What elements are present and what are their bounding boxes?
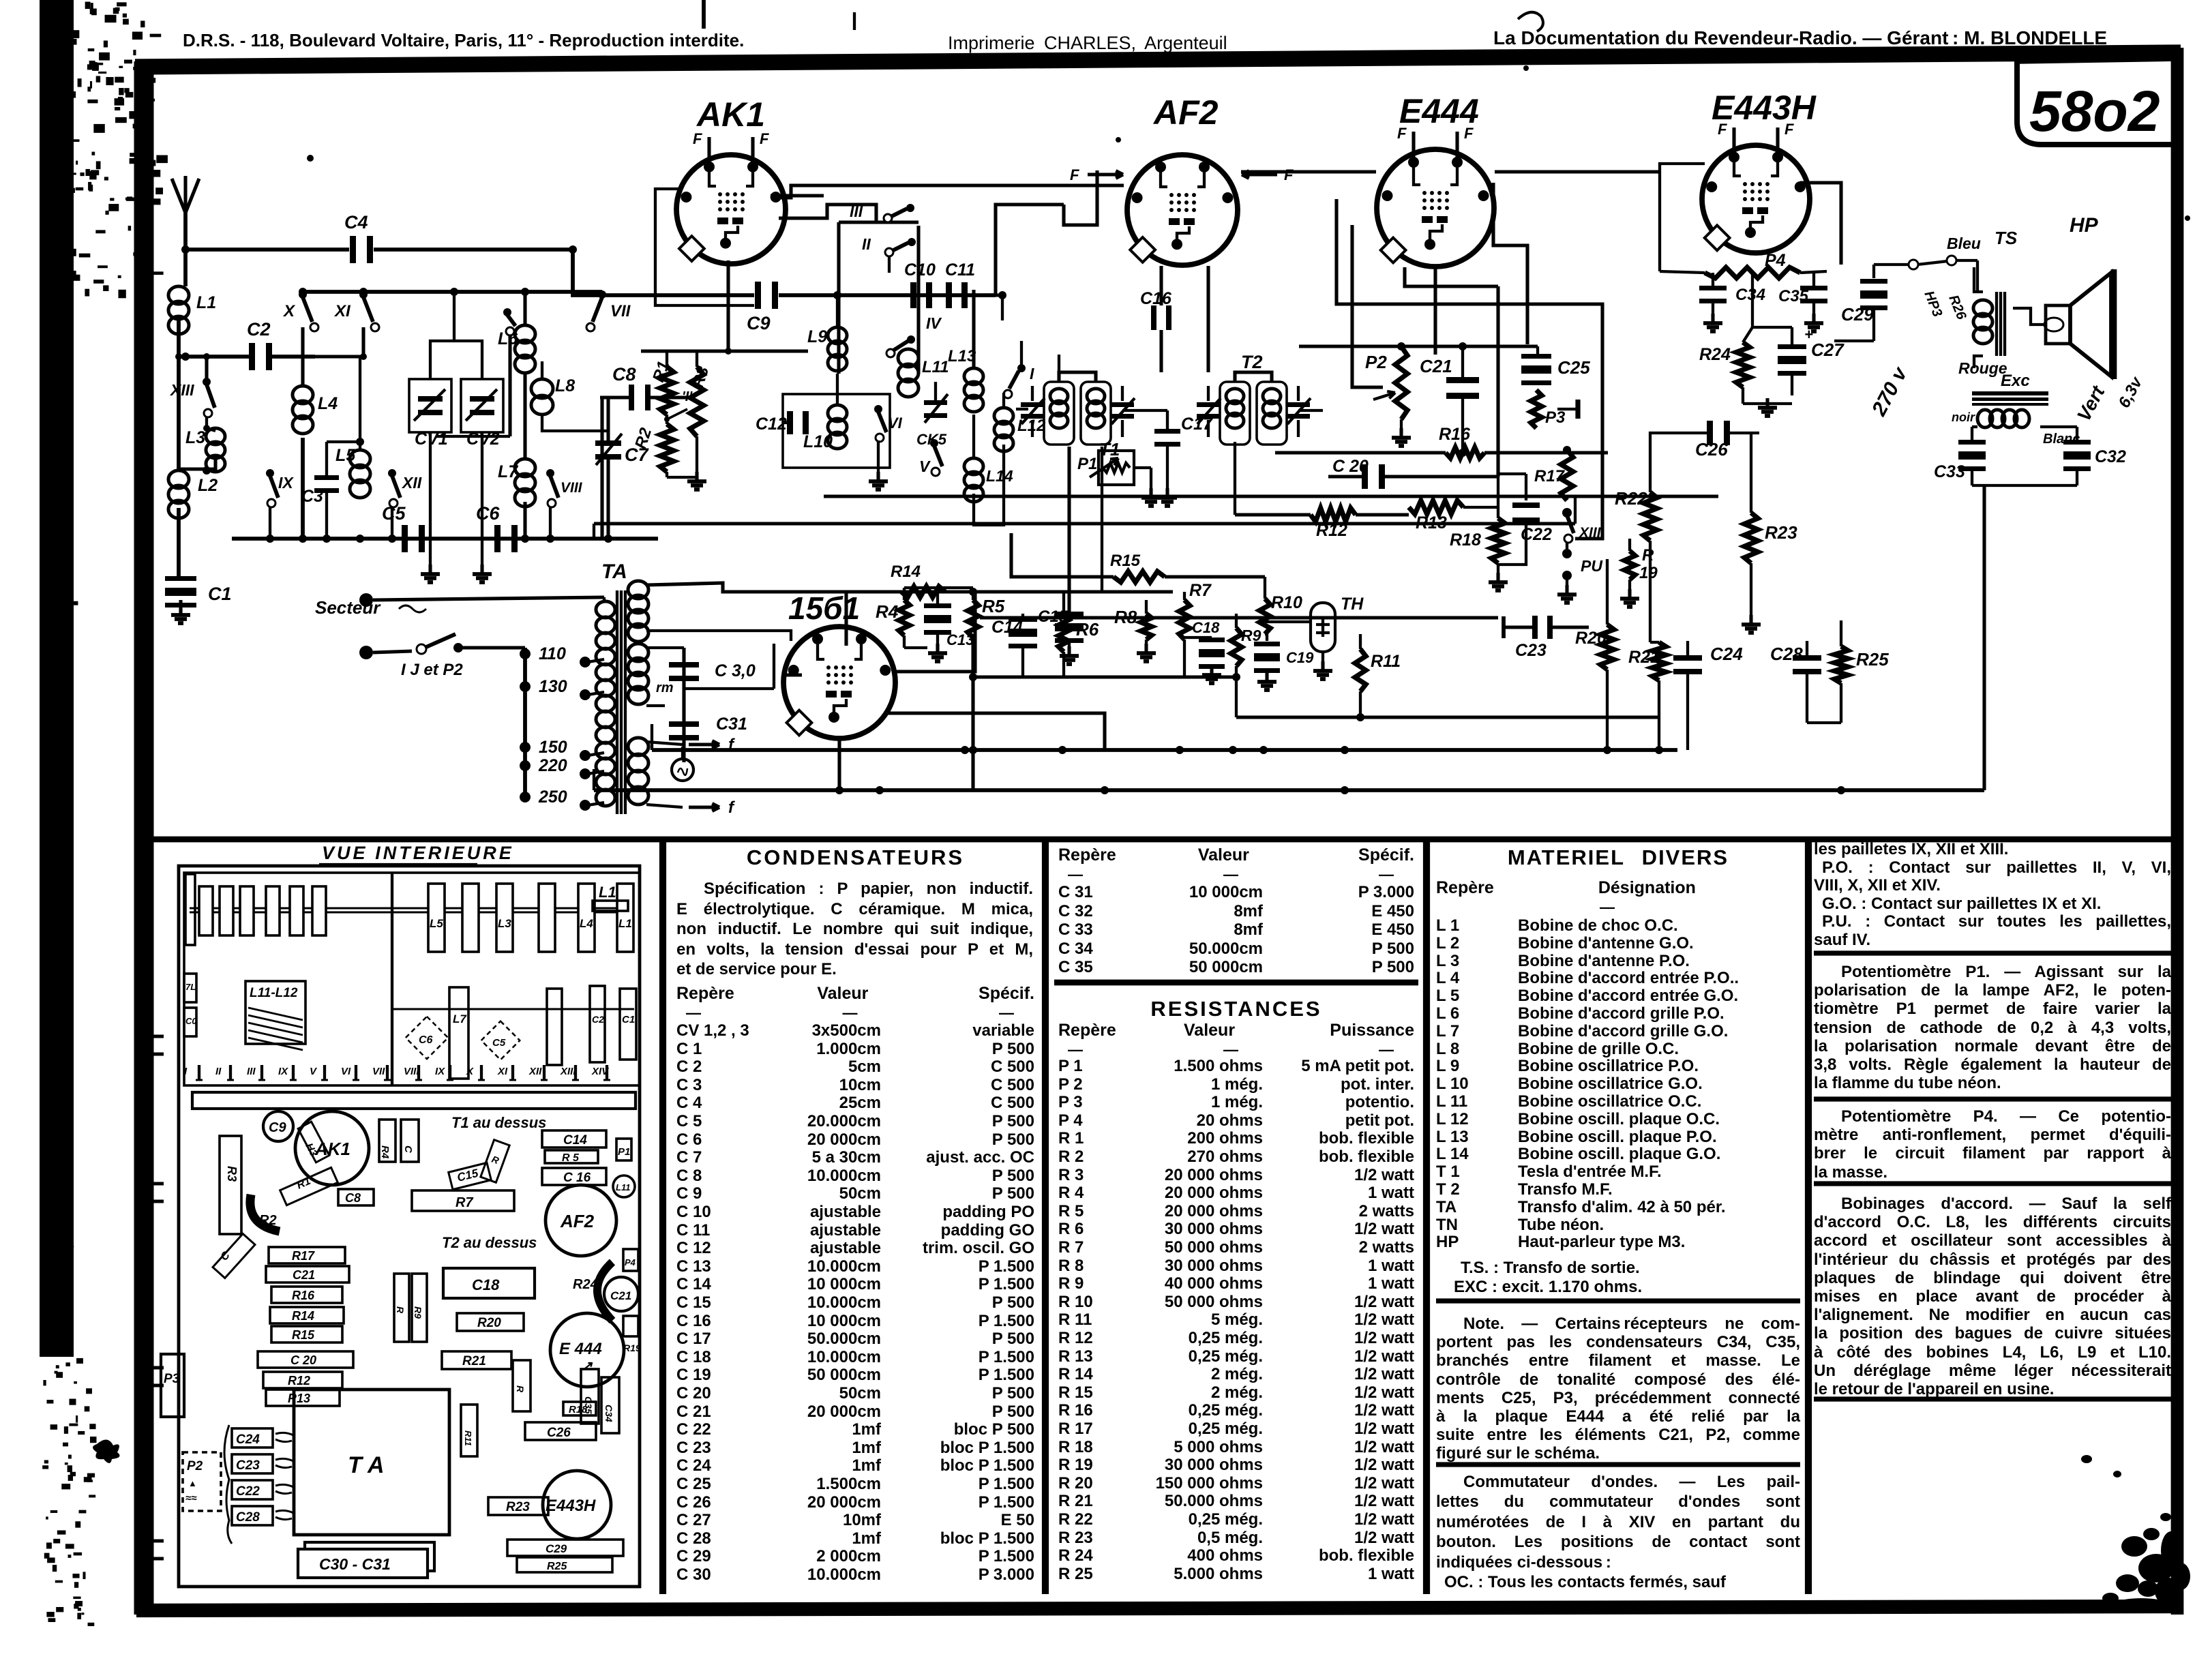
- layout R6: [481, 1140, 509, 1183]
- wire HT bottom: [646, 631, 791, 641]
- svg-text:noir: noir: [1952, 410, 1975, 424]
- svg-text:150: 150: [539, 738, 567, 757]
- wire: [177, 319, 181, 357]
- svg-text:VI: VI: [341, 1066, 351, 1077]
- switch tick: [417, 1065, 420, 1080]
- svg-text:L1: L1: [599, 884, 616, 901]
- capacitor C22: [1512, 502, 1540, 508]
- ground: [1165, 488, 1169, 498]
- svg-text:TH: TH: [1341, 595, 1364, 614]
- coil L8: [531, 379, 553, 398]
- wire: [179, 455, 215, 469]
- wire E444-E443H: [1495, 170, 1660, 173]
- svg-text:C31: C31: [716, 715, 747, 734]
- svg-text:C22: C22: [236, 1484, 260, 1499]
- capacitor C24: [1673, 655, 1702, 661]
- svg-text:P1: P1: [618, 1146, 630, 1158]
- layout P4: [623, 1249, 638, 1271]
- svg-text:110: 110: [539, 644, 566, 663]
- svg-text:C12: C12: [756, 415, 787, 434]
- resistor R24: [1736, 342, 1750, 387]
- layout cap bank: [224, 1425, 232, 1544]
- resistor R12: [1311, 508, 1356, 522]
- wire E443H top: [1800, 183, 1841, 265]
- svg-text:TA: TA: [601, 560, 627, 583]
- layout R11: [461, 1405, 477, 1456]
- resistor R19: [1624, 551, 1635, 580]
- page frame: [135, 52, 2181, 67]
- left small blocks: [185, 874, 195, 945]
- mains secteur: [359, 593, 373, 607]
- wire: [1984, 485, 1985, 790]
- switch III: [884, 214, 892, 222]
- resistor R25: [1834, 646, 1848, 683]
- svg-text:XII: XII: [528, 1066, 542, 1077]
- svg-text:R9: R9: [413, 1306, 423, 1319]
- wire AF2-E444: [1241, 170, 1376, 173]
- svg-text:X: X: [282, 302, 296, 320]
- pilot lamp: [672, 759, 693, 781]
- variable capacitor CV2: [461, 379, 503, 432]
- rule under Note: [1436, 1462, 1800, 1467]
- svg-text:III: III: [850, 202, 863, 220]
- svg-text:R11: R11: [463, 1430, 473, 1446]
- coil L5: [350, 450, 370, 468]
- svg-text:≈≈: ≈≈: [185, 1492, 197, 1504]
- svg-text:C2: C2: [592, 1014, 604, 1025]
- svg-text:C8: C8: [612, 364, 636, 385]
- layout R13: [266, 1390, 340, 1406]
- switch X2: [503, 308, 511, 316]
- svg-text:XIII: XIII: [169, 381, 194, 399]
- capacitor C8: [629, 385, 634, 410]
- ground: [1400, 419, 1403, 434]
- trimmer block: [312, 886, 326, 935]
- resistor R5: [968, 600, 979, 637]
- wire HT top: [646, 583, 1173, 592]
- svg-text:C29: C29: [1841, 304, 1874, 325]
- wire: [646, 704, 665, 707]
- svg-text:R10: R10: [1271, 593, 1302, 612]
- svg-text:P2: P2: [1365, 352, 1387, 372]
- svg-text:III: III: [247, 1066, 256, 1077]
- svg-text:270 v: 270 v: [1868, 362, 1913, 420]
- svg-text:7L: 7L: [185, 982, 196, 992]
- capacitor C4: [350, 236, 356, 263]
- coil L14: [964, 458, 983, 475]
- dial assembly box: [184, 873, 640, 1085]
- layout R3: [220, 1136, 241, 1234]
- svg-text:IX: IX: [435, 1066, 445, 1077]
- capacitor C3: [314, 475, 339, 480]
- svg-text:L1: L1: [618, 917, 632, 930]
- wire: [205, 357, 208, 382]
- chassis side tab: [151, 1541, 164, 1559]
- svg-text:R23: R23: [1765, 522, 1797, 543]
- wire: [573, 250, 754, 295]
- switch XIII: [203, 378, 211, 386]
- column rule 3: [1423, 840, 1430, 1594]
- coil block: [539, 884, 555, 952]
- layout E444: [550, 1313, 624, 1387]
- joint line: [973, 675, 1239, 678]
- svg-text:E 444: E 444: [559, 1340, 602, 1358]
- svg-text:L2: L2: [198, 476, 218, 495]
- shield box L9 L10: [783, 394, 890, 468]
- TA filament winding: [628, 738, 648, 755]
- layout R5: [545, 1150, 598, 1163]
- svg-text:R2: R2: [631, 425, 655, 451]
- resistor R20: [1600, 625, 1614, 670]
- coil block: [462, 884, 479, 952]
- TA secondary rm: [628, 644, 648, 661]
- svg-text:R15: R15: [1110, 552, 1141, 570]
- layout C9: [263, 1111, 293, 1141]
- registration mark top: [702, 0, 706, 29]
- svg-text:AK1: AK1: [314, 1139, 350, 1159]
- capacitor C32: [2063, 440, 2091, 445]
- wire antenna bus: [185, 247, 349, 252]
- svg-text:C9: C9: [747, 313, 771, 333]
- TA primary: [596, 601, 615, 618]
- svg-text:VUE INTERIEURE: VUE INTERIEURE: [322, 843, 514, 863]
- layout C35: [581, 1369, 599, 1424]
- tube 1561 U5: [783, 627, 895, 738]
- capacitor C1: [165, 576, 196, 581]
- svg-text:R25: R25: [547, 1561, 567, 1572]
- potentiometer P1: [1099, 451, 1134, 485]
- mains switch: [417, 644, 426, 654]
- switch bus: [303, 290, 602, 294]
- switch box: [837, 222, 840, 374]
- svg-text:R: R: [1642, 546, 1654, 565]
- svg-text:HP3: HP3: [1921, 289, 1945, 319]
- trimmer block: [199, 886, 213, 935]
- svg-text:R3: R3: [225, 1166, 239, 1182]
- variable capacitor CK5: [924, 400, 947, 405]
- svg-text:L14: L14: [986, 467, 1013, 485]
- svg-text:220: 220: [538, 756, 567, 775]
- svg-text:C23: C23: [1515, 641, 1547, 660]
- svg-text:F: F: [693, 130, 702, 147]
- coil L4: [293, 386, 313, 404]
- switch tick: [543, 1065, 546, 1080]
- layout H3: [298, 1122, 329, 1162]
- svg-text:L3: L3: [498, 917, 511, 930]
- svg-text:▲: ▲: [188, 1478, 197, 1488]
- svg-text:L8: L8: [555, 376, 575, 395]
- layout P2: [183, 1452, 221, 1511]
- layout L11 can: [613, 1175, 635, 1197]
- handwriting square: [1518, 12, 1543, 31]
- wire plate bus: [1235, 355, 1467, 372]
- svg-text:I: I: [1030, 365, 1034, 382]
- wire: [651, 724, 653, 750]
- svg-text:C15: C15: [1038, 607, 1069, 626]
- switch tick: [323, 1065, 326, 1080]
- chassis side tab: [151, 1368, 164, 1385]
- layout bottom box: [507, 1540, 623, 1556]
- svg-text:R25: R25: [1856, 649, 1889, 670]
- layout R18: [563, 1402, 596, 1415]
- svg-text:F: F: [1718, 121, 1727, 138]
- svg-text:V: V: [310, 1066, 318, 1077]
- wire: [779, 205, 876, 222]
- svg-text:15б1: 15б1: [788, 590, 860, 626]
- resistor R9: [1231, 628, 1242, 666]
- resistor R2: [660, 424, 674, 472]
- coil L11: [898, 349, 919, 367]
- svg-text:R12: R12: [288, 1374, 310, 1387]
- ground: [1496, 573, 1499, 582]
- wire: [1298, 409, 1323, 412]
- dashed trimmer2: [481, 1021, 520, 1060]
- resistor R11: [1355, 649, 1366, 691]
- layout P1: [616, 1139, 631, 1160]
- svg-text:L9: L9: [807, 327, 827, 346]
- svg-text:P4: P4: [625, 1257, 636, 1267]
- svg-text:X: X: [466, 1066, 474, 1077]
- svg-text:VIII: VIII: [404, 1066, 419, 1077]
- trimmer block: [240, 886, 254, 935]
- svg-text:E443H: E443H: [1712, 89, 1817, 127]
- svg-text:C6: C6: [419, 1034, 433, 1046]
- stray mark left: [93, 1439, 120, 1463]
- layout C8: [338, 1189, 374, 1205]
- svg-text:L11-L12: L11-L12: [250, 986, 298, 1000]
- svg-text:IX: IX: [278, 1066, 288, 1077]
- svg-text:C18: C18: [1192, 619, 1220, 636]
- capacitor C33: [1958, 440, 1986, 445]
- svg-text:+: +: [1804, 326, 1813, 343]
- switch tick: [292, 1065, 295, 1080]
- svg-text:L4: L4: [318, 394, 338, 413]
- svg-text:C21: C21: [1420, 356, 1452, 376]
- capacitor C6: [494, 525, 501, 552]
- antenna: [172, 179, 199, 213]
- capacitor C12: [787, 411, 793, 434]
- svg-text:R24: R24: [1699, 345, 1731, 364]
- tap line: [523, 648, 527, 799]
- capacitor C16: [1151, 305, 1156, 330]
- capacitor C10: [910, 282, 916, 308]
- layout E443H: [543, 1471, 611, 1539]
- plate bus: [1299, 344, 1538, 348]
- coil blocks row2: [547, 989, 562, 1065]
- node: [175, 353, 182, 360]
- wire: [430, 341, 482, 379]
- svg-text:Rouge: Rouge: [1958, 359, 2007, 377]
- layout R7: [412, 1190, 514, 1211]
- svg-text:↗: ↗: [581, 1359, 593, 1374]
- svg-text:R2: R2: [259, 1213, 277, 1228]
- resistor R22: [1643, 492, 1657, 541]
- svg-text:C16: C16: [1140, 289, 1172, 308]
- wire long bus: [824, 494, 1718, 498]
- chassis outer box: [179, 866, 640, 1587]
- svg-text:C3: C3: [301, 487, 323, 506]
- svg-text:R24: R24: [573, 1277, 598, 1292]
- resistor R10: [1259, 599, 1270, 634]
- layout AK1: [295, 1111, 369, 1185]
- layout R2 arc: [250, 1195, 280, 1231]
- svg-text:C: C: [402, 1145, 414, 1154]
- coil block: [428, 884, 445, 952]
- switch tick: [198, 1065, 200, 1080]
- svg-text:C26: C26: [547, 1426, 571, 1440]
- layout R8 R9: [394, 1274, 409, 1342]
- wire: [1352, 225, 1383, 387]
- switch VI: [874, 405, 882, 413]
- wire: [1872, 307, 1875, 341]
- svg-text:R3: R3: [689, 364, 713, 390]
- svg-text:L5: L5: [335, 446, 356, 465]
- capacitor C15: [1067, 447, 1071, 612]
- wire: [641, 349, 808, 352]
- svg-text:R20: R20: [1575, 629, 1607, 648]
- capacitor C5: [402, 525, 408, 552]
- svg-text:C29: C29: [546, 1542, 567, 1555]
- svg-text:XIII: XIII: [560, 1066, 576, 1077]
- svg-text:L10: L10: [803, 432, 833, 451]
- coil block: [617, 884, 633, 952]
- wire: [980, 616, 1498, 619]
- rule col5 a: [1814, 950, 2172, 955]
- svg-text:C35: C35: [1778, 287, 1809, 305]
- tube E444 U3: [1377, 125, 1494, 267]
- svg-text:T A: T A: [348, 1452, 385, 1478]
- svg-text:L7: L7: [453, 1012, 467, 1025]
- capacitor C34: [1699, 286, 1727, 290]
- trimmer block: [266, 886, 280, 935]
- ink blotches bottom right: [2121, 1536, 2147, 1557]
- job number box 5802: [2017, 57, 2177, 145]
- switch tick: [355, 1065, 357, 1080]
- switch XI: [359, 290, 368, 299]
- resistor R15: [1114, 571, 1165, 582]
- switch tick: [574, 1065, 577, 1080]
- joint line 2: [1236, 715, 1659, 719]
- svg-text:Secteur: Secteur: [315, 597, 381, 618]
- tube E443H U4: [1702, 121, 1810, 253]
- switch tick: [260, 1065, 263, 1080]
- wire: [1498, 472, 1526, 475]
- svg-text:R16: R16: [292, 1289, 315, 1302]
- svg-text:F: F: [1785, 121, 1794, 138]
- wire: [1972, 484, 2077, 487]
- capacitor C25: [1536, 346, 1539, 355]
- svg-text:R4: R4: [379, 1145, 391, 1159]
- svg-text:R18: R18: [1450, 530, 1481, 550]
- svg-text:HP: HP: [2070, 214, 2099, 237]
- resistor R18: [1497, 477, 1499, 518]
- capacitor C31: [669, 721, 699, 727]
- svg-text:L3: L3: [185, 428, 205, 447]
- switch tick: [480, 1065, 483, 1080]
- capacitor C23: [1532, 616, 1538, 639]
- svg-text:R14: R14: [891, 562, 921, 581]
- wire AF2 to T2: [1206, 266, 1210, 372]
- svg-text:AK1: AK1: [696, 95, 765, 134]
- switch XIII: [1562, 508, 1572, 517]
- layout R21: [442, 1351, 511, 1369]
- svg-text:R11: R11: [1371, 652, 1401, 671]
- layout R14: [270, 1307, 344, 1323]
- switch XII: [388, 469, 396, 477]
- resistor R6: [1058, 614, 1069, 652]
- layout C26: [525, 1422, 596, 1440]
- svg-text:f: f: [728, 798, 735, 817]
- svg-text:C33: C33: [1934, 462, 1965, 481]
- coil L9: [828, 327, 847, 344]
- svg-text:C 20: C 20: [290, 1353, 316, 1367]
- ground: [1742, 387, 1744, 404]
- svg-text:C5: C5: [492, 1037, 506, 1049]
- wire: [666, 472, 668, 477]
- layout R20: [457, 1313, 524, 1331]
- capacitor C11: [946, 282, 952, 308]
- rule col5 c: [1814, 1181, 2172, 1186]
- svg-text:C10: C10: [904, 260, 936, 280]
- svg-text:R15: R15: [292, 1328, 315, 1342]
- tap 130: [520, 681, 531, 692]
- wire: [1337, 199, 1602, 539]
- wire: [1265, 620, 1311, 623]
- wire: [824, 496, 1004, 497]
- layout R15: [271, 1326, 342, 1342]
- svg-text:C6: C6: [476, 503, 500, 524]
- svg-text:C34: C34: [1735, 286, 1765, 304]
- E443H coupling box: [1660, 164, 1705, 271]
- rule under EXC: [1436, 1298, 1800, 1303]
- svg-text:T2: T2: [1241, 352, 1263, 372]
- svg-text:C 3,0: C 3,0: [715, 661, 756, 680]
- coil block: [578, 884, 595, 952]
- wire: [879, 666, 880, 713]
- layout R22: [513, 1360, 531, 1411]
- potentiometer P4: [1705, 267, 1800, 278]
- svg-text:VII: VII: [610, 302, 631, 320]
- svg-text:C14: C14: [991, 618, 1023, 637]
- svg-text:R7: R7: [1189, 581, 1212, 600]
- svg-text:R22: R22: [1615, 488, 1647, 509]
- transformer T1: [1021, 372, 1135, 445]
- svg-text:R 5: R 5: [562, 1152, 580, 1164]
- layout R24 arc: [597, 1262, 612, 1321]
- svg-text:R21: R21: [462, 1354, 486, 1368]
- switch IV: [907, 335, 915, 344]
- svg-text:R5: R5: [982, 596, 1005, 616]
- tap 110: [520, 648, 531, 659]
- switch tick: [606, 1065, 608, 1080]
- layout C16: [542, 1168, 606, 1185]
- capacitor C30: [682, 648, 685, 762]
- ground: [481, 432, 483, 570]
- layout R17: [269, 1247, 345, 1263]
- wire AK1 pin: [771, 194, 824, 197]
- layout R19: [623, 1316, 638, 1336]
- layout R23: [488, 1497, 548, 1515]
- switch tick: [386, 1065, 389, 1080]
- svg-text:R19: R19: [623, 1342, 641, 1353]
- ground: [1566, 580, 1568, 590]
- layout R16: [271, 1287, 342, 1303]
- rectifier leads: [783, 673, 802, 676]
- svg-text:R: R: [395, 1306, 406, 1314]
- svg-text:C14: C14: [563, 1133, 587, 1147]
- wire to AF2: [773, 185, 1124, 198]
- switch tick: [511, 1065, 514, 1080]
